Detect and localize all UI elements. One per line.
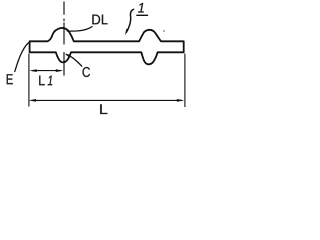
label L of L1 [39,76,45,86]
dimension L1 line with arrows [32,70,61,72]
label L of DL [102,15,108,25]
leader 1 (s-curve with tapered end) [126,9,133,32]
leader E [15,43,29,72]
label E [7,74,13,84]
label D of DL [92,15,100,25]
rod body outline with two swellings [30,28,184,64]
extension line left [28,54,30,107]
label C [83,67,91,77]
label 1 [138,3,144,13]
underline of label 1 [137,14,148,16]
label L (dimension) [100,104,107,114]
label 1 of L1 [48,76,53,86]
leader DL [67,27,92,32]
dimension L line with arrows [32,99,182,101]
leader C with arrowhead to bottom swelling [67,54,82,66]
extension line right [184,54,186,108]
speck artifact near right swelling [163,30,165,32]
centerline dash-dot through left swelling [63,2,65,75]
